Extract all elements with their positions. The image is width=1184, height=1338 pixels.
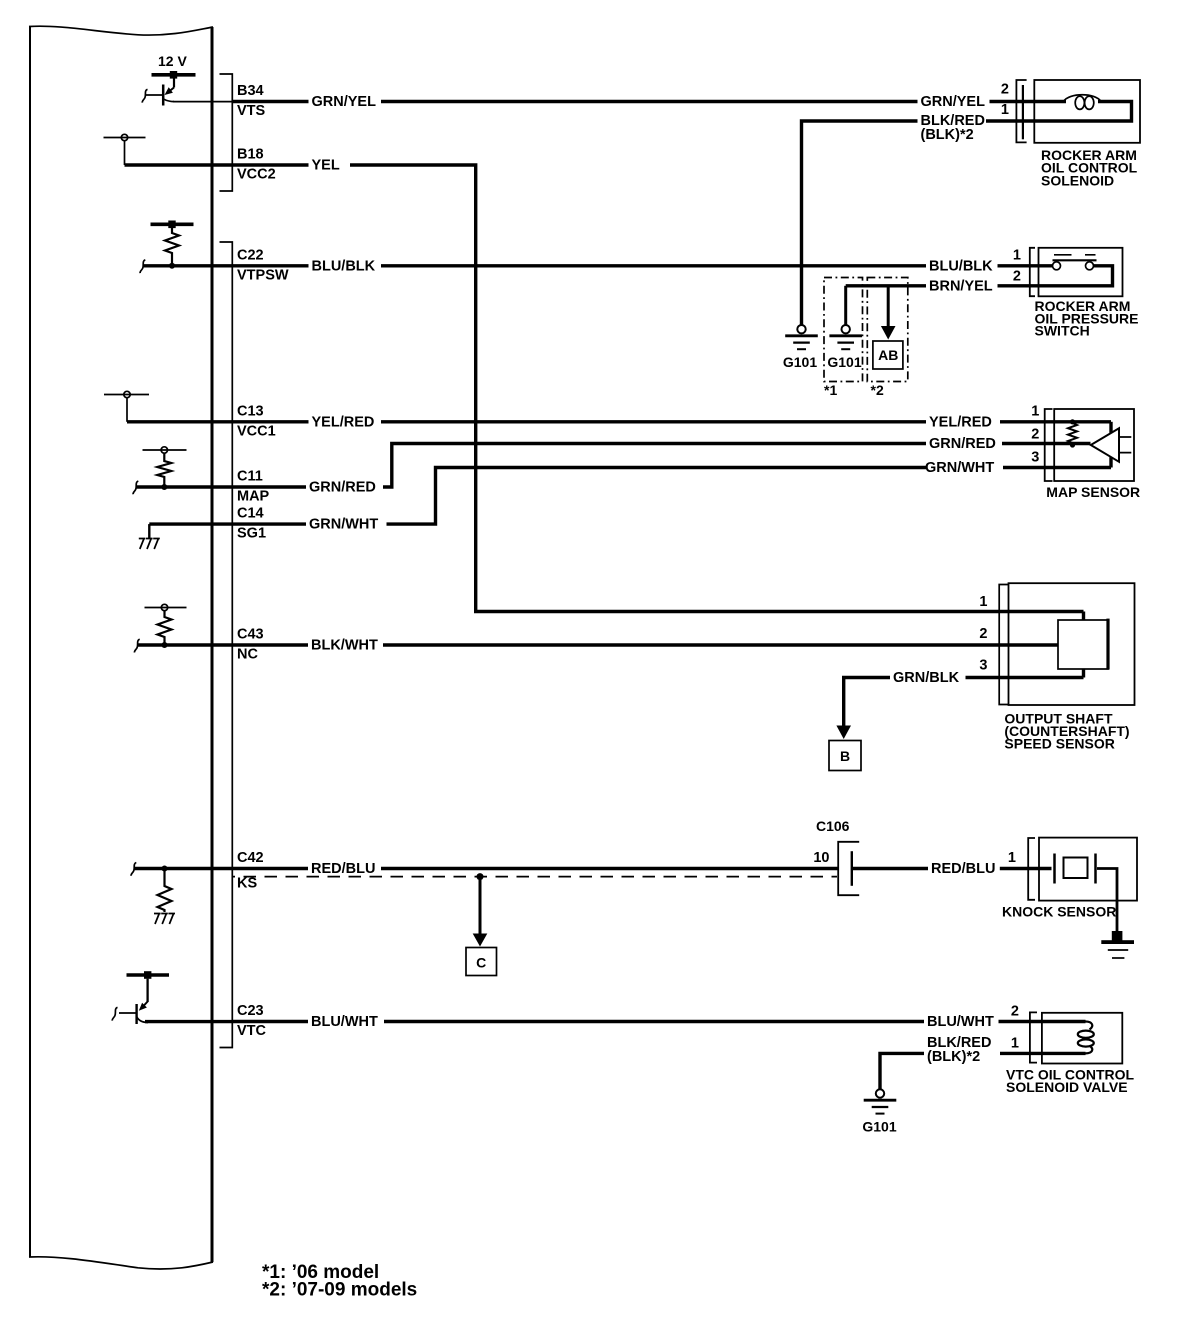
connector inner bar (rocker solenoid) [1022, 85, 1024, 139]
svg-text:2: 2 [1001, 82, 1009, 98]
ECM connector bracket B (pins B34,B18) [220, 74, 233, 191]
svg-text:NC: NC [237, 647, 258, 663]
connector bracket (MAP sensor) [1045, 409, 1053, 481]
knock sensor right plate [1094, 854, 1097, 884]
wire end hook (C22) [140, 260, 145, 273]
svg-text:C11: C11 [237, 469, 263, 485]
svg-text:1: 1 [1013, 248, 1021, 264]
dash-dot box *1 ('06 model) [824, 278, 863, 382]
ECM connector bracket C (pins C22-C23) [220, 242, 233, 1048]
svg-text:GRN/YEL: GRN/YEL [312, 94, 377, 110]
MAP sensor amplifier triangle [1091, 428, 1119, 462]
svg-text:BLU/BLK: BLU/BLK [929, 258, 993, 274]
connector B box [829, 741, 861, 771]
wire GRN/BLK stub to speed sensor pin 3 [966, 676, 1084, 679]
connector bracket (pressure switch) [1030, 248, 1035, 296]
junction dot (R3 bottom) [1070, 442, 1075, 447]
svg-text:C13: C13 [237, 403, 264, 419]
svg-text:G101: G101 [827, 354, 861, 370]
wire GRN/RED stub to MAP sensor pin 2 [1002, 442, 1091, 445]
wire RED/BLU stub into knock sensor pin 1 [1000, 867, 1052, 870]
wire arrow to connector C [479, 877, 482, 935]
svg-text:B: B [840, 748, 850, 764]
wire SG1 ground drop [148, 524, 150, 538]
svg-text:VCC2: VCC2 [237, 167, 276, 183]
svg-text:GRN/YEL: GRN/YEL [921, 94, 986, 110]
svg-text:BLU/BLK: BLU/BLK [312, 258, 376, 274]
VTC coil loop 1 [1078, 1031, 1094, 1038]
wire KS internal [134, 867, 232, 870]
transistor Q1 emitter lead [173, 79, 175, 88]
resistor R4 (NC pull-up) [158, 611, 172, 645]
speed sensor wire 3 rise [1082, 669, 1085, 678]
svg-text:3: 3 [979, 658, 987, 674]
ground G101 terminal circle (left) [797, 325, 805, 333]
VTC coil loop 2 [1078, 1039, 1094, 1046]
wire VTPSW internal [143, 264, 232, 267]
svg-text:2: 2 [1031, 427, 1039, 443]
switch blade [1053, 259, 1097, 261]
ground G101 terminal circle (bottom) [876, 1089, 884, 1097]
solenoid coil loop 1 [1075, 96, 1084, 109]
case ground bars (knock sensor) [1101, 940, 1134, 944]
svg-text:VTPSW: VTPSW [237, 267, 289, 283]
svg-text:GRN/RED: GRN/RED [309, 480, 376, 496]
svg-text:G101: G101 [783, 354, 817, 370]
5V supply terminal circle (C11 pull-up) [161, 447, 167, 453]
wire BLU/BLK stub to switch pin 1 [998, 264, 1054, 267]
shield dashed line (KS) [233, 876, 837, 878]
svg-text:AB: AB [878, 347, 898, 363]
VTC coil entry arc [1086, 1022, 1093, 1030]
wire GRN/YEL left segment [232, 100, 308, 103]
junction dot (C22 node) [169, 263, 175, 269]
transistor Q2 emitter arrow [139, 1003, 147, 1011]
svg-text:SG1: SG1 [237, 526, 266, 542]
svg-text:KS: KS [237, 876, 257, 892]
junction dot (C43 node) [162, 642, 168, 648]
transistor Q1 (VTS driver) supply square [170, 71, 177, 79]
connector C106 bracket [838, 842, 859, 895]
ground G101 terminal circle (*1) [842, 325, 850, 333]
svg-text:1: 1 [979, 594, 987, 610]
svg-text:BLK/WHT: BLK/WHT [311, 638, 378, 654]
junction dot on shield [477, 873, 484, 880]
resistor R3 (MAP internal) [1068, 422, 1077, 445]
transistor Q2 (VTC driver) supply square [144, 971, 151, 979]
wire YEL/RED stub into MAP sensor pin 1 [1000, 420, 1111, 423]
svg-text:BLU/WHT: BLU/WHT [927, 1014, 994, 1030]
wire NC internal [137, 643, 232, 646]
component box ROCKER ARM OIL PRESSURE SWITCH [1039, 248, 1123, 296]
junction dot (C42 node) [162, 866, 168, 872]
chassis ground (KS) [154, 914, 175, 925]
connector C106 inner bar [851, 851, 853, 886]
ground G101 bars (bottom) [864, 1099, 897, 1102]
12V supply bar (VTS driver) [152, 73, 196, 77]
svg-text:YEL/RED: YEL/RED [312, 414, 375, 430]
svg-text:VTS: VTS [237, 103, 266, 119]
svg-text:2: 2 [979, 626, 987, 642]
svg-text:10: 10 [813, 850, 829, 866]
wire BLK/RED corner to ground G101 (bottom) [880, 1053, 924, 1089]
VCC2 supply rail line [104, 137, 146, 139]
svg-text:2: 2 [1013, 269, 1021, 285]
12V supply bar (C22 pull-up) [151, 223, 194, 227]
VCC1 supply terminal circle [124, 391, 130, 397]
svg-text:G101: G101 [862, 1119, 896, 1135]
component box VTC OIL CONTROL SOLENOID VALVE [1042, 1013, 1122, 1064]
solenoid internal loop and wire BLK/RED stub (pin 1) [986, 102, 1132, 122]
svg-text:C: C [476, 955, 486, 971]
MAP sensor internal wire 3 rise [1109, 457, 1112, 467]
junction dot (C11 node) [161, 484, 167, 490]
wire BLU/WHT stub into VTC solenoid pin 2 [999, 1020, 1086, 1023]
svg-text:C42: C42 [237, 850, 264, 866]
svg-text:VCC1: VCC1 [237, 423, 276, 439]
VCC2 supply terminal circle [121, 134, 127, 140]
wire RED/BLU left segment [232, 867, 308, 870]
ECM body left edge [29, 26, 31, 1257]
wire YEL left segment [232, 163, 308, 166]
ground G101 bars (left) [785, 334, 818, 337]
switch contact circle (right) [1086, 262, 1094, 270]
transistor Q2 base bar [135, 1004, 137, 1024]
arrowhead to B [836, 726, 851, 740]
wire BRN/YEL drop to ground G101 (*1) [844, 286, 847, 325]
arrowhead to C [473, 934, 488, 947]
connector bracket (knock sensor) [1028, 838, 1035, 900]
svg-text:*2: ’07-09 models: *2: ’07-09 models [262, 1280, 417, 1301]
resistor R2 (MAP pull-up) [157, 453, 171, 487]
wire BLK/WHT main segment to speed sensor pin 2 [383, 643, 1058, 646]
svg-text:1: 1 [1008, 850, 1016, 866]
VCC1 supply rail line [104, 394, 149, 396]
svg-text:GRN/WHT: GRN/WHT [309, 517, 378, 533]
speed sensor wire 1 drop [1082, 612, 1085, 621]
5V supply rail line (C11 pull-up) [143, 449, 187, 451]
12V supply bar (VTC driver) [127, 973, 170, 977]
MAP sensor internal wire 1 drop [1109, 422, 1112, 433]
svg-text:C22: C22 [237, 247, 264, 263]
svg-text:SOLENOID VALVE: SOLENOID VALVE [1006, 1079, 1128, 1095]
wire arrow to connector AB [887, 286, 890, 327]
dash-dot box *2 ('07-09 models) [867, 278, 908, 382]
wire YEL/RED main segment [381, 420, 926, 423]
solenoid coil loop 2 [1085, 96, 1094, 109]
wire SG1 internal [149, 522, 232, 525]
svg-text:RED/BLU: RED/BLU [311, 861, 375, 877]
wire end hook (Q2 base) [112, 1007, 117, 1020]
wire BRN/YEL stub to switch pin 2 [998, 266, 1113, 286]
connector bracket (rocker solenoid) [1016, 80, 1026, 142]
svg-text:GRN/WHT: GRN/WHT [925, 460, 994, 476]
component box ROCKER ARM OIL CONTROL SOLENOID [1034, 80, 1140, 143]
connector bracket (VTC solenoid) [1030, 1012, 1037, 1062]
wire VCC2 internal drop [124, 141, 126, 165]
wire end hook (C42) [131, 863, 136, 876]
component box OUTPUT SHAFT SPEED SENSOR [1009, 583, 1135, 705]
5V supply rail line (C43 pull-up) [145, 607, 187, 609]
wire BLU/BLK left segment [232, 264, 308, 267]
wire YEL elbow to speed sensor pin 1 [350, 165, 1084, 612]
transistor Q2 collector lead [137, 1017, 148, 1023]
component box KNOCK SENSOR [1039, 838, 1137, 901]
transistor Q2 emitter lead [146, 979, 148, 1002]
wire VTC internal [145, 1020, 232, 1023]
svg-text:1: 1 [1011, 1036, 1019, 1052]
svg-text:RED/BLU: RED/BLU [931, 861, 995, 877]
svg-text:GRN/BLK: GRN/BLK [893, 670, 960, 686]
wire BLK/RED from solenoid pin 1 to ground G101 [802, 121, 918, 325]
wire BLU/BLK main segment [381, 264, 926, 267]
svg-text:SPEED SENSOR: SPEED SENSOR [1004, 736, 1114, 752]
wire end hook (C43) [134, 639, 139, 652]
wire BLU/WHT main segment [384, 1020, 924, 1023]
wire end hook (C11) [133, 481, 138, 494]
svg-text:2: 2 [1011, 1004, 1019, 1020]
wire MAP internal [136, 485, 232, 488]
MAP sensor output stubs [1119, 437, 1131, 453]
svg-text:VTC: VTC [237, 1023, 267, 1039]
resistor R1 (VTPSW pull-up) [165, 228, 179, 266]
wire VTS internal [173, 101, 232, 103]
svg-text:B34: B34 [237, 83, 264, 99]
transistor Q2 base lead [119, 1012, 137, 1014]
svg-text:BLU/WHT: BLU/WHT [311, 1014, 378, 1030]
wire RED/BLU after C106 [853, 867, 928, 870]
speed sensor pickup square [1058, 620, 1108, 669]
5V supply terminal circle (C43 pull-up) [161, 604, 167, 610]
svg-text:MAP: MAP [237, 489, 270, 505]
svg-text:1: 1 [1031, 403, 1039, 419]
svg-text:3: 3 [1031, 449, 1039, 465]
svg-text:(BLK)*2: (BLK)*2 [921, 127, 974, 143]
ECM body top torn edge [29, 26, 213, 35]
transistor Q1 base lead [146, 94, 163, 96]
ECM body bottom torn edge [29, 1257, 213, 1269]
connector bracket (speed sensor) [999, 585, 1009, 705]
svg-text:C106: C106 [816, 818, 850, 834]
knock sensor piezo square [1064, 858, 1088, 879]
wire GRN/YEL main segment [381, 100, 918, 103]
arrowhead to AB [881, 326, 896, 340]
wire VCC2 internal [125, 163, 233, 166]
svg-text:YEL/RED: YEL/RED [929, 414, 992, 430]
wire GRN/BLK corner segment [844, 678, 890, 727]
svg-text:*2: *2 [871, 382, 884, 398]
connector AB box [873, 341, 903, 369]
junction dot (R3 top) [1070, 419, 1075, 424]
svg-text:SWITCH: SWITCH [1035, 323, 1090, 339]
case ground square (knock sensor) [1112, 931, 1123, 941]
svg-text:C23: C23 [237, 1003, 264, 1019]
wire VCC1 internal drop [126, 398, 128, 422]
wire GRN/WHT stub to MAP sensor pin 3 [1003, 466, 1111, 469]
svg-text:GRN/RED: GRN/RED [929, 436, 996, 452]
wire BRN/YEL [846, 284, 926, 287]
switch actuator dashes [1054, 254, 1096, 256]
svg-text:12 V: 12 V [158, 53, 187, 69]
resistor R5 (KS) [158, 869, 172, 913]
wire BLK/RED stub into VTC solenoid pin 1 [1000, 1052, 1086, 1055]
svg-text:C43: C43 [237, 627, 264, 643]
switch contact circle (left) [1053, 262, 1061, 270]
svg-text:MAP SENSOR: MAP SENSOR [1046, 484, 1140, 500]
speed sensor pickup pole (thick right edge) [1106, 619, 1109, 670]
wire BLK/WHT left segment [232, 643, 308, 646]
knock sensor left plate [1053, 854, 1056, 884]
solenoid coil dome [1064, 95, 1102, 102]
ECM body right edge [211, 27, 214, 1262]
transistor Q1 base bar [162, 85, 165, 106]
svg-text:C14: C14 [237, 506, 264, 522]
wire GRN/RED left segment [232, 485, 306, 488]
transistor Q1 collector lead [163, 99, 174, 102]
wire VCC1 internal [127, 420, 232, 423]
wire YEL/RED left segment [232, 420, 308, 423]
svg-text:*1: *1 [824, 382, 837, 398]
component box MAP SENSOR [1054, 409, 1134, 481]
12V supply square (C22 pull-up) [168, 221, 175, 229]
wire BLU/WHT left segment [232, 1020, 308, 1023]
svg-text:BRN/YEL: BRN/YEL [929, 278, 993, 294]
ground G101 bars (*1) [829, 334, 862, 337]
VTC coil exit arc [1086, 1046, 1093, 1054]
wire GRN/RED jog and main segment [383, 444, 926, 488]
wire GRN/WHT jog and main segment [387, 468, 927, 525]
chassis ground (SG1) [139, 539, 160, 550]
wire end hook (Q1 base) [142, 89, 147, 102]
transistor Q1 emitter arrow [165, 87, 173, 95]
wire GRN/WHT left segment [232, 522, 306, 525]
svg-text:SOLENOID: SOLENOID [1041, 172, 1114, 188]
svg-text:B18: B18 [237, 147, 264, 163]
connector C box [466, 948, 497, 976]
knock sensor internal wire to case ground [1097, 869, 1117, 932]
svg-text:1: 1 [1001, 102, 1009, 118]
svg-text:(BLK)*2: (BLK)*2 [927, 1049, 980, 1065]
svg-text:KNOCK SENSOR: KNOCK SENSOR [1002, 904, 1116, 920]
transistor Q2 emitter diagonal [143, 1002, 148, 1007]
svg-text:YEL: YEL [312, 158, 340, 174]
wire RED/BLU main segment [381, 867, 838, 870]
wire GRN/YEL stub into solenoid pin 2 [990, 100, 1067, 103]
